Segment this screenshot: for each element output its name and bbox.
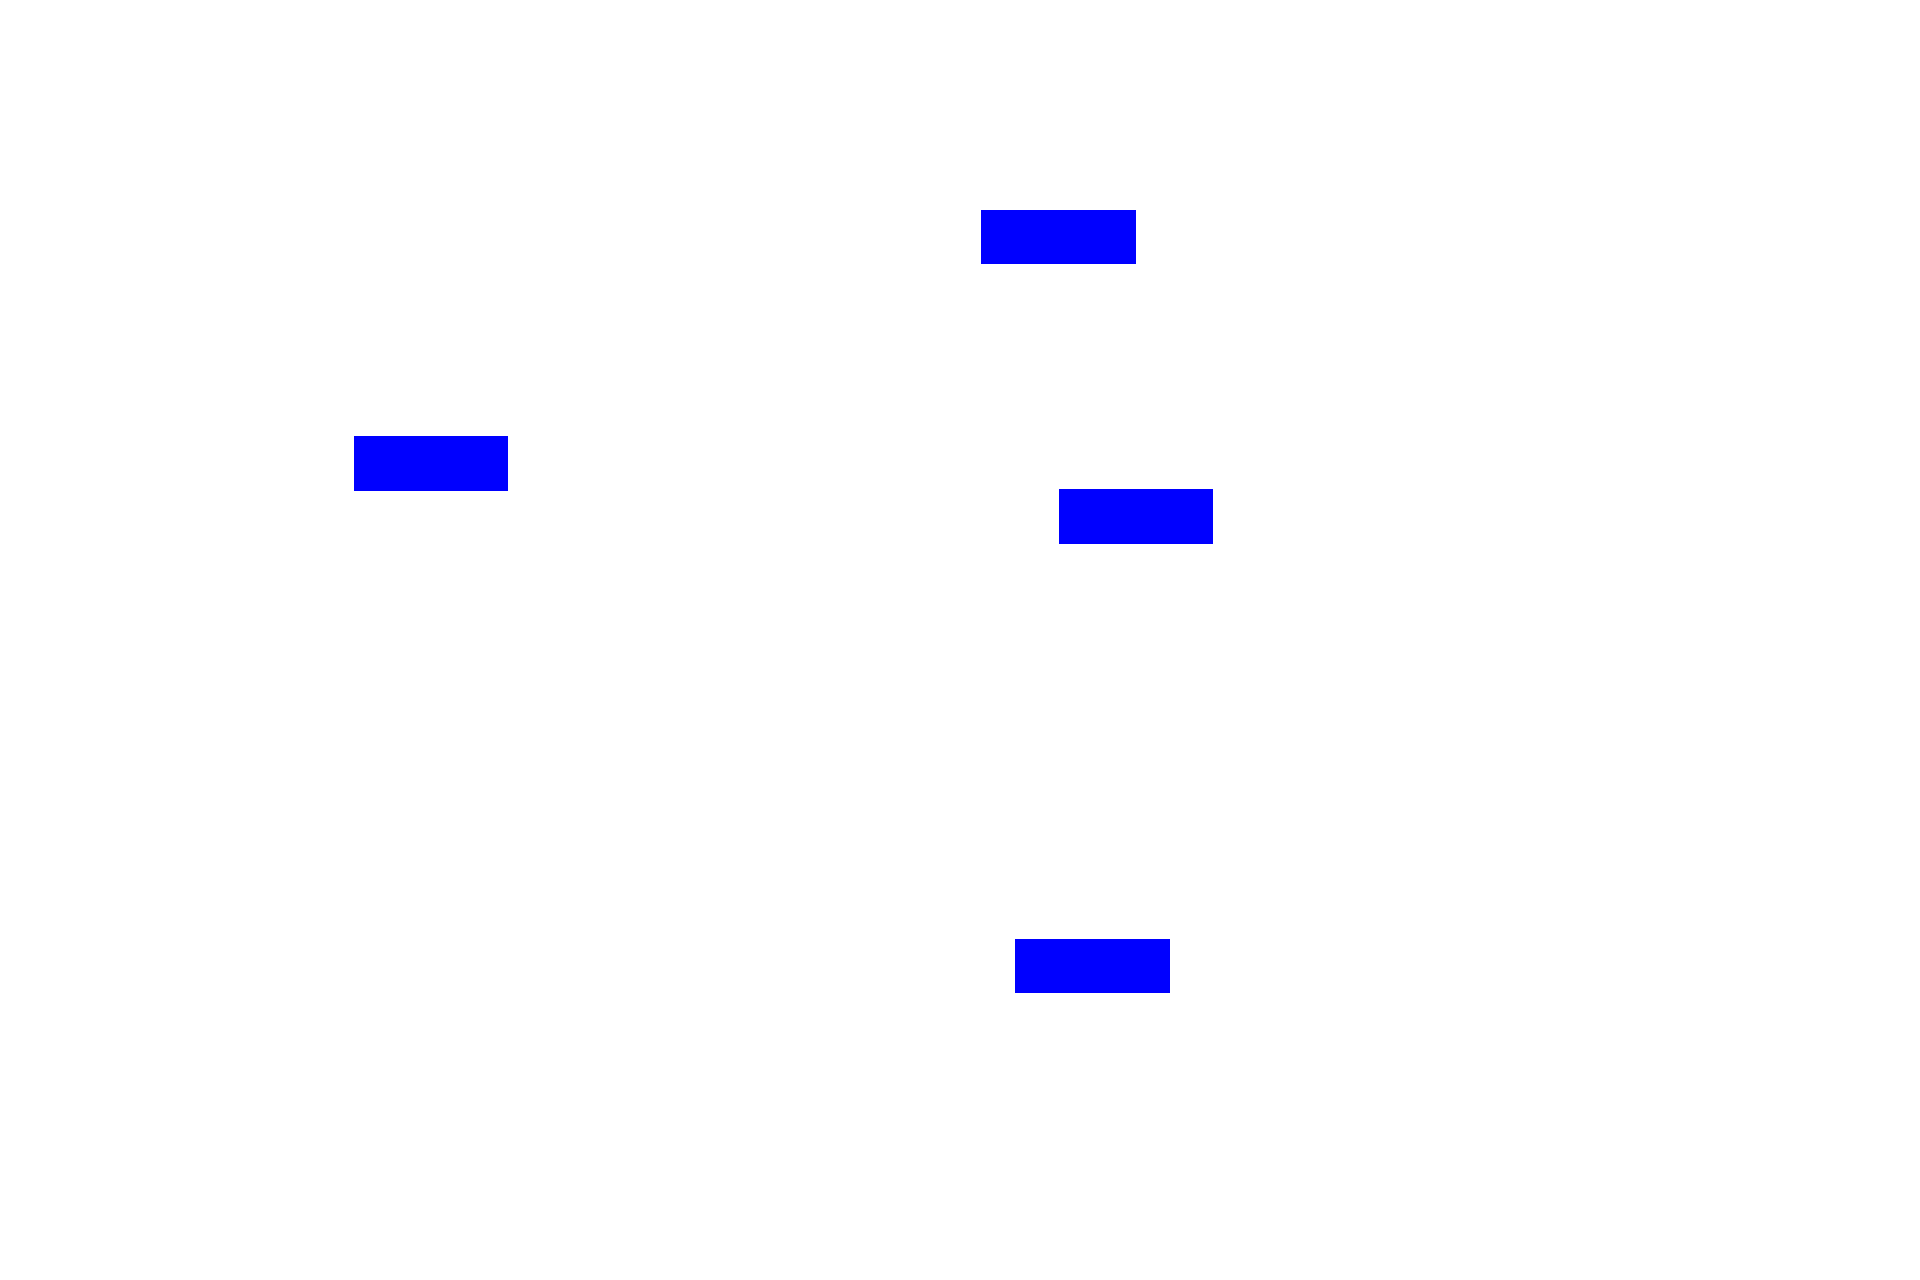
blue rectangle 2 (mid left): [354, 436, 508, 491]
blue rectangle 3 (middle): [1059, 489, 1213, 544]
blue rectangle 4 (bottom center): [1015, 939, 1170, 993]
blue rectangle 1 (top center): [981, 210, 1136, 264]
